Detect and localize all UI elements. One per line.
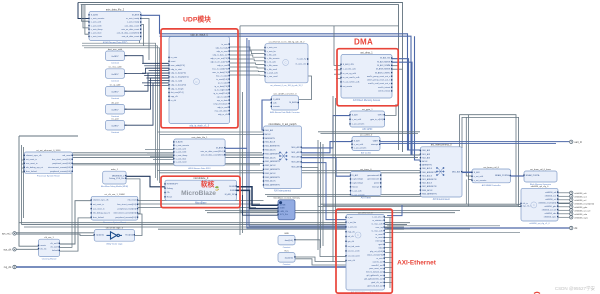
annotation box AXI-Ethernet xyxy=(336,209,392,293)
block eth6656_spi_cfg_0 xyxy=(520,185,558,225)
svg-text:uart_rtl: uart_rtl xyxy=(574,141,582,144)
svg-text:mac_addr[47:0]: mac_addr[47:0] xyxy=(171,65,185,67)
svg-text:axi_rxd_arstn: axi_rxd_arstn xyxy=(348,254,360,257)
svg-text:eth6656_scl: eth6656_scl xyxy=(574,199,586,202)
wire periph M01 xyxy=(302,142,353,153)
wire eth rstub 12 xyxy=(385,277,393,279)
block axi_uartlite_0 xyxy=(351,133,380,154)
svg-text:M_AXIS_MM2S: M_AXIS_MM2S xyxy=(376,68,391,71)
wire left vertical run3 xyxy=(23,147,25,218)
wire eth rstub 13 xyxy=(385,282,393,284)
svg-text:locked: locked xyxy=(52,250,58,252)
block rst_clk_wiz_1_100M xyxy=(91,193,139,224)
block axis_dwidth_converter_0 xyxy=(270,93,300,115)
svg-text:bus_struct_reset[0:0]: bus_struct_reset[0:0] xyxy=(117,203,136,206)
wire spi port wire 3 xyxy=(558,202,569,204)
wire resets long run4 xyxy=(73,163,264,165)
svg-text:0x4E57: 0x4E57 xyxy=(111,126,119,128)
svg-text:Constant: Constant xyxy=(111,97,119,100)
wire dma top branch xyxy=(334,26,341,66)
port out eth6656_gdn xyxy=(570,205,588,209)
wire udp lpin feed 9 xyxy=(144,84,169,86)
svg-text:S00_ACLK: S00_ACLK xyxy=(265,141,276,144)
wire resets long run1 xyxy=(73,154,421,156)
wire rstclk right3 xyxy=(138,207,256,209)
svg-text:interconnect_aresetn[0:0]: interconnect_aresetn[0:0] xyxy=(48,166,71,169)
wire mb maxi run1 xyxy=(205,210,460,212)
wire spi port wire 5 xyxy=(558,209,569,211)
svg-text:bus_struct_reset[0:0]: bus_struct_reset[0:0] xyxy=(52,158,71,161)
svg-text:s_axi_aresetn: s_axi_aresetn xyxy=(352,193,364,196)
wire rst eth lfeed5 xyxy=(22,171,25,173)
svg-text:udp_rx_clk: udp_rx_clk xyxy=(218,114,228,116)
svg-text:interconnect_aresetn[0:0]: interconnect_aresetn[0:0] xyxy=(113,212,136,215)
svg-text:Constant: Constant xyxy=(111,62,119,65)
svg-text:peripheral_aresetn[0:0]: peripheral_aresetn[0:0] xyxy=(50,170,71,173)
svg-text:clk_out1: clk_out1 xyxy=(50,242,58,245)
svg-text:axi_ethernet_0: axi_ethernet_0 xyxy=(358,211,373,214)
svg-text:M04_ACLK: M04_ACLK xyxy=(265,180,276,183)
svg-text:interrupt: interrupt xyxy=(371,143,379,146)
block constant dest_mac_addr xyxy=(106,48,125,65)
svg-text:eth6656_sdn: eth6656_sdn xyxy=(574,213,587,216)
port out eth6656_sdn xyxy=(570,212,588,216)
svg-text:microblaze_0_axi_periph: microblaze_0_axi_periph xyxy=(269,123,297,126)
svg-text:M00_ACLK: M00_ACLK xyxy=(265,149,276,152)
svg-text:eth6656_gdn: eth6656_gdn xyxy=(545,205,557,208)
svg-text:ACLK: ACLK xyxy=(422,160,428,163)
wire fifo1 bottom run2 xyxy=(159,172,455,174)
svg-text:mgt_clk: mgt_clk xyxy=(348,230,355,233)
wire vcc to eth xyxy=(295,257,346,262)
block axis_data_fifo_2 xyxy=(88,8,141,44)
port out eth6656_sync xyxy=(570,216,589,220)
svg-text:interrupt: interrupt xyxy=(375,240,383,243)
wire ilmb bus xyxy=(237,190,279,208)
watermark red arc xyxy=(534,292,540,293)
svg-text:0x4E57: 0x4E57 xyxy=(111,74,119,76)
svg-text:axi_dma_1: axi_dma_1 xyxy=(360,51,373,54)
hierarchy icon local memory xyxy=(279,201,282,204)
svg-text:clk_wiz_1: clk_wiz_1 xyxy=(44,237,54,239)
wire fifo1 lfeed2 xyxy=(147,152,174,154)
port clk_out xyxy=(570,226,579,230)
wire left vertical run xyxy=(19,136,39,246)
svg-text:microblaze_0: microblaze_0 xyxy=(193,177,208,180)
annotation box MicroBlaze xyxy=(161,176,240,207)
svg-text:M00_AXI: M00_AXI xyxy=(452,170,461,173)
wire mid vert gray2 xyxy=(242,92,244,233)
wire udp to ren 7 xyxy=(230,74,266,76)
block util_vector_logic_0 xyxy=(94,226,136,245)
svg-text:eth6656_sdi: eth6656_sdi xyxy=(574,192,586,195)
wire gpio out wire xyxy=(385,104,396,115)
wire mid vert gray1 xyxy=(239,26,241,235)
wire udp to ren 0 xyxy=(230,47,266,50)
wire udp to ren 3 xyxy=(230,59,266,61)
block axi_timer_0 xyxy=(350,168,382,200)
svg-text:s_axi_lite: s_axi_lite xyxy=(348,221,357,224)
svg-text:mm2s_cntrl_reset_out_n: mm2s_cntrl_reset_out_n xyxy=(368,82,390,85)
svg-text:AXI GPIO: AXI GPIO xyxy=(362,128,372,131)
svg-text:tx_result[1:0]: tx_result[1:0] xyxy=(216,78,228,81)
svg-text:Debug: Debug xyxy=(167,188,173,190)
svg-text:rx_reset: rx_reset xyxy=(375,233,383,236)
svg-text:peripheral_reset[0:0]: peripheral_reset[0:0] xyxy=(52,162,71,165)
svg-text:ILMB: ILMB xyxy=(230,190,235,192)
svg-text:dout[0:0]: dout[0:0] xyxy=(285,256,294,259)
svg-text:M_AXIS: M_AXIS xyxy=(216,146,224,149)
wire eth rstub 11 xyxy=(385,272,393,274)
wire eth right vert2 xyxy=(392,219,394,286)
wire blue port clk line xyxy=(410,227,569,229)
wire udp lpin feed 8 xyxy=(142,82,169,84)
wire mid gray run1 xyxy=(265,193,460,195)
svg-text:util_vector_logic_0: util_vector_logic_0 xyxy=(106,226,124,229)
svg-text:tx_axis: tx_axis xyxy=(221,43,227,46)
svg-text:UDP模块: UDP模块 xyxy=(183,15,211,24)
wire sys_clk wire xyxy=(16,248,39,250)
svg-text:S00_ACLK: S00_ACLK xyxy=(422,167,433,170)
svg-text:INTERRUPT: INTERRUPT xyxy=(167,184,179,186)
svg-text:Clk: Clk xyxy=(167,192,170,194)
wire eth right run2 xyxy=(387,228,470,230)
annotation box DMA xyxy=(337,49,398,106)
svg-text:Clocking Wizard: Clocking Wizard xyxy=(42,259,56,261)
svg-text:eth6656_resetn[0:0]: eth6656_resetn[0:0] xyxy=(574,202,594,205)
svg-text:ILMB: ILMB xyxy=(280,208,285,210)
svg-text:Reset: Reset xyxy=(167,196,173,199)
wire eth rstub 6 xyxy=(385,247,393,249)
svg-text:AXI4-Stream Data Width Convert: AXI4-Stream Data Width Converter xyxy=(270,111,300,114)
watermark circle spi xyxy=(531,202,537,208)
wire eth rstub 10 xyxy=(385,267,393,269)
wire constant src_mac_addr out stub xyxy=(125,73,127,75)
svg-text:axi_interconnect_0: axi_interconnect_0 xyxy=(431,144,453,147)
svg-text:axi_txc_arstn: axi_txc_arstn xyxy=(348,250,360,253)
wire clkwiz out main xyxy=(60,201,92,244)
wire icn0 M00 blue xyxy=(462,171,472,173)
wire mb maxi run2 xyxy=(207,212,455,214)
wire const out 3 xyxy=(125,73,170,91)
wire udp to ren 6 xyxy=(230,70,266,73)
svg-text:eth6656_resetn[0:0]: eth6656_resetn[0:0] xyxy=(538,201,556,204)
svg-text:DLMB: DLMB xyxy=(229,186,235,188)
block axi_interconnect_0 xyxy=(420,144,463,202)
svg-text:rx_axis: rx_axis xyxy=(171,57,177,59)
wire fifo1 bottom run xyxy=(157,170,460,172)
svg-text:CSDN @95527学安: CSDN @95527学安 xyxy=(555,285,596,292)
svg-text:dout[0:0]: dout[0:0] xyxy=(285,239,294,242)
svg-text:src_port: src_port xyxy=(111,117,119,120)
wire dma sright2 xyxy=(392,68,403,70)
svg-text:dst_mac[47:0]: dst_mac[47:0] xyxy=(171,91,184,94)
svg-text:M_AXIS_CNTRL: M_AXIS_CNTRL xyxy=(375,71,391,74)
wire periph M02 xyxy=(302,158,351,177)
svg-text:ip_rx_data[7:0]: ip_rx_data[7:0] xyxy=(214,85,228,88)
wire mid vert blue2 xyxy=(249,40,346,226)
svg-text:icmp_checksum: icmp_checksum xyxy=(213,103,228,105)
svg-text:udp_ip_stack_0: udp_ip_stack_0 xyxy=(190,33,208,36)
svg-text:AXI Timer: AXI Timer xyxy=(361,197,371,200)
svg-text:capturetrig1: capturetrig1 xyxy=(352,182,363,185)
svg-text:aresetn: aresetn xyxy=(273,105,280,108)
wire udp to ren 2 xyxy=(230,55,266,57)
svg-text:udp_tx_start: udp_tx_start xyxy=(171,68,182,71)
svg-text:udp_rx_err_out[7:0]: udp_rx_err_out[7:0] xyxy=(210,57,228,60)
wire udp lpin feed 6 xyxy=(146,77,169,79)
svg-text:Processor System Reset: Processor System Reset xyxy=(37,174,60,177)
svg-text:dst_port: dst_port xyxy=(111,101,119,104)
svg-text:interrupt: interrupt xyxy=(372,186,380,189)
wire lmb rst wire xyxy=(243,195,279,215)
svg-text:M00_ACLK: M00_ACLK xyxy=(422,189,433,192)
svg-text:axi_ethernet_0_ren_100_fg_adv_: axi_ethernet_0_ren_100_fg_adv_16_2 xyxy=(270,84,302,87)
svg-text:m_axi_mm2s_aclk: m_axi_mm2s_aclk xyxy=(343,77,360,79)
svg-text:S01_ARESETN: S01_ARESETN xyxy=(422,178,437,181)
svg-text:udp_tx_data[7:0]: udp_tx_data[7:0] xyxy=(171,72,186,75)
svg-text:slowest_sync_clk: slowest_sync_clk xyxy=(26,154,41,157)
wire mdm sysrst wire xyxy=(126,179,140,214)
wire udp lpin feed 1 xyxy=(144,65,169,67)
svg-text:S02_ACLK: S02_ACLK xyxy=(422,182,433,185)
svg-text:rx_axis: rx_axis xyxy=(376,258,382,260)
svg-text:s_axis_txc: s_axis_txc xyxy=(348,226,357,229)
svg-text:M02_AXI: M02_AXI xyxy=(291,156,300,159)
svg-text:freeze: freeze xyxy=(352,187,358,189)
wire blue axis bus upper xyxy=(160,34,421,150)
wire udp to ren 5 xyxy=(230,67,266,68)
svg-text:eth6656_scl_sel: eth6656_scl_sel xyxy=(574,209,590,212)
svg-text:DMA: DMA xyxy=(354,38,373,47)
wire rperiph vert3 xyxy=(322,144,324,246)
wire sys_rst wire b xyxy=(16,234,94,235)
svg-text:eth6656_spi_cfg_v1_0: eth6656_spi_cfg_v1_0 xyxy=(529,222,550,225)
svg-text:gpio_io_o[0:0]: gpio_io_o[0:0] xyxy=(370,119,383,121)
svg-text:s_axi_aresetn: s_axi_aresetn xyxy=(352,123,364,126)
svg-text:rst_clk_wiz_1_100M: rst_clk_wiz_1_100M xyxy=(105,193,125,196)
wire blue vert right 3 xyxy=(415,36,421,160)
wire fifo out bottom run2 xyxy=(82,46,158,181)
svg-text:udp_rx_data_out: udp_rx_data_out xyxy=(213,53,228,56)
svg-text:Constant: Constant xyxy=(283,246,291,249)
wire bramctrl to bram xyxy=(511,175,525,177)
wire resets long run5 xyxy=(73,164,261,166)
svg-text:s_axis_tready: s_axis_tready xyxy=(127,21,139,24)
wire fifo1 M_AXIS blue xyxy=(225,147,247,149)
wire fifo right stub bundle xyxy=(141,19,149,61)
svg-text:aux_reset_in: aux_reset_in xyxy=(26,162,37,165)
wire eth rstub 3 xyxy=(385,232,393,234)
wire eth top blue elbow xyxy=(387,205,402,216)
wire const out 5 xyxy=(125,83,170,125)
port uart_rtl xyxy=(570,140,583,144)
wire eth rstub 0 xyxy=(385,217,393,219)
wire rstclk right2 xyxy=(138,203,260,205)
svg-text:axi_bram_ctrl_0: axi_bram_ctrl_0 xyxy=(483,166,499,169)
wire rperiph vert1 xyxy=(317,140,319,250)
svg-text:arp_rx_data: arp_rx_data xyxy=(217,99,229,102)
wire uart long line 2 xyxy=(380,143,556,145)
svg-text:microblaze_0_local_memory: microblaze_0_local_memory xyxy=(273,197,300,200)
svg-text:udp_rx_data[7:0]: udp_rx_data[7:0] xyxy=(171,83,186,86)
block mdm_1 xyxy=(101,169,128,188)
svg-text:eth6656_sdi: eth6656_sdi xyxy=(545,191,556,194)
svg-text:peripheral_aresetn[0:0]: peripheral_aresetn[0:0] xyxy=(115,216,136,219)
svg-text:gtx_clk: gtx_clk xyxy=(348,240,354,243)
wire eth rstub 7 xyxy=(385,252,393,254)
wire const out 4 xyxy=(125,78,170,109)
svg-text:dest_mac_addr: dest_mac_addr xyxy=(108,48,123,51)
wire dma sright1 xyxy=(392,65,399,67)
svg-text:rx_statistics: rx_statistics xyxy=(372,219,382,222)
svg-text:s_axis_tuser: s_axis_tuser xyxy=(176,161,188,164)
svg-text:mac_init_done: mac_init_done xyxy=(215,109,229,112)
svg-text:axi_ethernet_0_ren_100_fg_adv_: axi_ethernet_0_ren_100_fg_adv_16_2 xyxy=(269,41,306,44)
svg-text:M03_ACLK: M03_ACLK xyxy=(265,172,276,175)
svg-text:s_axi_aresetn: s_axi_aresetn xyxy=(354,146,366,149)
svg-text:M01_AXI: M01_AXI xyxy=(291,151,300,154)
svg-text:m_axis_fw: m_axis_fw xyxy=(297,59,307,61)
wire spi port wire 1 xyxy=(558,195,569,197)
svg-text:axi_resetn: axi_resetn xyxy=(343,85,352,88)
svg-text:axis_data_fifo_2: axis_data_fifo_2 xyxy=(106,8,125,11)
wire top outer run xyxy=(78,3,403,153)
wire udp to ren 4 xyxy=(230,63,266,64)
svg-text:gtref_clk_buf_out: gtref_clk_buf_out xyxy=(367,285,383,288)
svg-text:AXI4-Stream Data FIFO: AXI4-Stream Data FIFO xyxy=(103,42,128,45)
wire udp lpin feed 7 xyxy=(149,80,169,82)
svg-text:AXI Uartlite: AXI Uartlite xyxy=(361,152,372,155)
wire eth rstub 2 xyxy=(385,227,393,229)
svg-text:s_axis_fw: s_axis_fw xyxy=(267,51,276,53)
wire const out 2 xyxy=(125,68,170,73)
svg-text:ext_reset_in: ext_reset_in xyxy=(93,203,104,206)
block rst_axi_ethernet_0_1000 xyxy=(24,149,73,178)
annotation box UDP module xyxy=(161,29,238,128)
wire eth right vert xyxy=(389,217,391,288)
svg-text:axis_rd_data_count[31:0]: axis_rd_data_count[31:0] xyxy=(117,32,140,35)
svg-text:axis_wr_data_count: axis_wr_data_count xyxy=(121,28,139,31)
svg-text:s_axis_tstrb: s_axis_tstrb xyxy=(176,151,188,154)
svg-text:s_axis_tlast: s_axis_tlast xyxy=(176,157,187,160)
wire gnd stub xyxy=(294,239,295,240)
svg-text:ip_rx_valid: ip_rx_valid xyxy=(218,82,228,84)
wire uvl to rst xyxy=(135,214,142,236)
svg-text:ARESETN: ARESETN xyxy=(265,137,275,140)
svg-text:rxg_clk: rxg_clk xyxy=(4,266,12,269)
svg-text:s_axi_aresetn: s_axi_aresetn xyxy=(474,179,486,182)
svg-text:app_clk: app_clk xyxy=(171,96,178,98)
wire spi port wire 6 xyxy=(558,213,569,215)
wire clkwiz out2 xyxy=(24,156,72,247)
wire bram feed run2 xyxy=(462,117,521,206)
wire clkwiz out locked xyxy=(60,218,92,251)
wire second left drop xyxy=(85,5,89,35)
svg-text:S_AXI: S_AXI xyxy=(474,171,480,174)
wire udp lpin feed 2 xyxy=(146,67,169,69)
svg-text:M04_AXI: M04_AXI xyxy=(291,166,300,169)
wire rxg_clk blue line xyxy=(16,266,346,268)
svg-text:peripheral_reset[0:0]: peripheral_reset[0:0] xyxy=(118,207,137,210)
svg-text:rx_clk: rx_clk xyxy=(171,100,176,102)
wire gpio uart runs2 xyxy=(321,133,419,135)
svg-text:Debug_SYS_Rst: Debug_SYS_Rst xyxy=(109,177,125,180)
svg-text:m_axi_s2mm_aclk: m_axi_s2mm_aclk xyxy=(343,82,360,84)
wire dma feed3 xyxy=(334,73,341,75)
svg-text:axis_dwidth_converter_0: axis_dwidth_converter_0 xyxy=(273,93,297,96)
wire fifo1 lfeed4 xyxy=(153,159,174,161)
svg-text:eth6656_scl: eth6656_scl xyxy=(545,198,556,201)
svg-text:ip_tx_req[15:0]: ip_tx_req[15:0] xyxy=(214,88,228,91)
svg-text:eth6656_scl_sel: eth6656_scl_sel xyxy=(542,208,557,211)
svg-text:M_AXIS: M_AXIS xyxy=(289,101,297,104)
wire fifo right vert a xyxy=(140,22,141,44)
wire udp to ren 1 xyxy=(230,51,266,54)
svg-text:udp_tx_end: udp_tx_end xyxy=(217,106,227,109)
svg-text:udp_tx_length[15:0]: udp_tx_length[15:0] xyxy=(171,76,189,79)
svg-text:gtref_clk_out: gtref_clk_out xyxy=(371,281,383,284)
block microblaze_0 xyxy=(164,177,237,205)
svg-text:dcm_locked: dcm_locked xyxy=(26,171,37,173)
svg-text:s_axis_aclk: s_axis_aclk xyxy=(91,22,101,24)
svg-text:M_AXIS: M_AXIS xyxy=(132,14,140,17)
wire fifo out bottom run1 xyxy=(82,43,156,178)
port out eth6656_sce xyxy=(570,195,588,199)
svg-text:eth6656_sce: eth6656_sce xyxy=(574,195,587,198)
wire spi vert feed1 xyxy=(465,180,467,205)
svg-text:slowest_sync_clk: slowest_sync_clk xyxy=(93,199,108,202)
svg-text:mac_tx_valid[7:0]: mac_tx_valid[7:0] xyxy=(212,67,228,70)
svg-text:S_AXI: S_AXI xyxy=(352,113,358,116)
svg-text:M00_ARESETN: M00_ARESETN xyxy=(265,152,280,155)
svg-text:M_AXI_SG: M_AXI_SG xyxy=(380,57,390,60)
wire constant src_ip_addr out stub xyxy=(125,90,127,92)
svg-text:m_axi_sg_aclk: m_axi_sg_aclk xyxy=(343,73,356,75)
svg-text:软核: 软核 xyxy=(201,180,215,189)
wire const out 1 xyxy=(125,56,170,64)
svg-text:S_AXI: S_AXI xyxy=(354,140,360,143)
wire bram arstn vert xyxy=(468,115,472,180)
block constant src_ip_addr xyxy=(106,83,125,100)
svg-text:udp_tx_err_out[7:0]: udp_tx_err_out[7:0] xyxy=(210,60,228,63)
wire bram aclk vert xyxy=(466,117,472,176)
block axi_gpio_1 xyxy=(349,109,385,131)
wire mid vert blue1 xyxy=(247,38,410,228)
svg-text:AXI Interconnect: AXI Interconnect xyxy=(433,198,450,201)
svg-text:src_mac_addr: src_mac_addr xyxy=(108,66,121,69)
svg-text:M01_ACLK: M01_ACLK xyxy=(265,156,276,159)
svg-text:mb_debug_sys_rst: mb_debug_sys_rst xyxy=(93,212,110,215)
svg-text:S_AXIS: S_AXIS xyxy=(273,98,281,101)
svg-text:Constant: Constant xyxy=(111,131,119,134)
svg-text:s_axi_aclk: s_axi_aclk xyxy=(352,119,361,121)
svg-text:S_AXIS: S_AXIS xyxy=(91,14,99,17)
svg-text:axis_clk: axis_clk xyxy=(348,260,355,262)
svg-text:eth6656_sync: eth6656_sync xyxy=(544,215,556,218)
block axi_dma_1 xyxy=(340,51,392,102)
svg-text:AXI Direct Memory Access: AXI Direct Memory Access xyxy=(353,99,381,102)
svg-text:Op1[0:0]: Op1[0:0] xyxy=(96,235,104,237)
svg-text:M_AXI_DP: M_AXI_DP xyxy=(225,193,236,196)
svg-text:mac_irq: mac_irq xyxy=(376,227,383,229)
svg-text:s_axis_aclk: s_axis_aclk xyxy=(176,148,186,150)
port sys_clk xyxy=(3,248,16,252)
svg-text:axi_txd_arstn: axi_txd_arstn xyxy=(348,245,360,248)
svg-text:eth6656_sync: eth6656_sync xyxy=(574,216,589,219)
wire blue axis bus lower xyxy=(160,36,421,155)
watermark circle eth xyxy=(355,232,361,238)
